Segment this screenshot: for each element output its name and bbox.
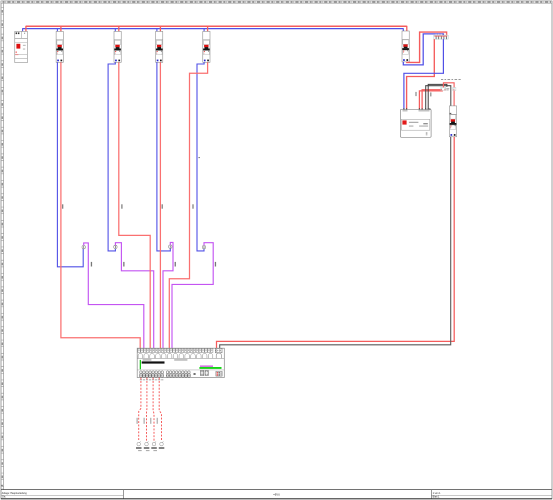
wire N channel3 blue	[157, 62, 170, 251]
wire N bus (blue)	[23, 28, 404, 30]
wire label output 3	[150, 418, 151, 424]
actuator aux block 1	[200, 371, 203, 376]
svg-text:Blatt 1: Blatt 1	[433, 496, 440, 499]
connection point node 3	[169, 245, 172, 248]
wire bus drop stubs blue	[23, 28, 404, 31]
wire label W2	[121, 204, 122, 208]
connection point node 2	[114, 245, 117, 248]
wire lamp output 2 dashed red	[146, 378, 148, 442]
actuator bottom terminals left group	[140, 371, 164, 380]
svg-text:=EVU: =EVU	[273, 493, 280, 496]
connection point node 4	[202, 245, 205, 248]
wire label W5	[198, 157, 200, 158]
wire N to PSU blue	[404, 39, 444, 109]
wire switched channel1 purple	[84, 243, 144, 348]
circuit breaker F4	[156, 31, 163, 62]
lamp E1	[136, 441, 142, 448]
wire KNX+ red B	[422, 90, 443, 110]
circuit breaker F6	[402, 31, 409, 62]
circuit breaker F7	[449, 106, 456, 137]
net label 1	[91, 262, 92, 267]
lamp E1 sub label	[138, 449, 142, 452]
wire L channel2 red	[119, 62, 150, 348]
frame left ruler numbers	[1, 7, 3, 489]
wire switched channel3 purple	[163, 242, 173, 348]
wire bus down black	[220, 137, 451, 348]
frame top ruler line	[1, 2, 552, 4]
lamp E2 sub label	[146, 449, 150, 452]
net label 2	[123, 262, 124, 267]
connector X1	[434, 34, 448, 39]
actuator top terminal strip	[138, 349, 213, 353]
wire bus down red	[217, 137, 455, 348]
wire N channel2 blue	[108, 62, 115, 251]
actuator terminal arcs row	[138, 353, 221, 358]
circuit breaker F3	[114, 31, 121, 62]
KNX terminal label row	[441, 79, 461, 80]
wire F6 out blue	[403, 34, 443, 65]
actuator bottom terminals right group	[166, 371, 190, 377]
wire switched channel4 purple	[172, 243, 213, 349]
wire N channel1 blue	[57, 62, 83, 266]
actuator aux block 2	[205, 371, 208, 376]
KNX actuator A1 body	[137, 348, 224, 377]
wire L channel1 red	[61, 62, 140, 348]
frame top ruler numbers	[1, 1, 552, 3]
lamp E2	[144, 441, 150, 448]
wire label output 1	[137, 418, 138, 424]
lamp E3 sub label	[153, 449, 157, 452]
wire lamp output 3 dashed red	[152, 378, 155, 442]
wire L to PSU red	[407, 39, 435, 109]
wire lamp output 4 dashed red	[159, 378, 161, 442]
wire KNX- black A	[426, 86, 451, 110]
wire L channel4 red	[169, 62, 207, 348]
circuit breaker F2	[56, 31, 63, 62]
wire label KNX left	[415, 92, 416, 96]
lamp E3	[151, 441, 157, 448]
net label 3	[175, 262, 176, 267]
frame left ruler line	[3, 3, 5, 489]
power supply U1	[400, 108, 431, 137]
title block	[1, 485, 552, 499]
svg-text:Ort:: Ort:	[2, 496, 6, 499]
wire L channel3 red	[159, 62, 161, 348]
title block texts	[2, 492, 441, 499]
wire label W1	[62, 204, 63, 208]
KNX bus clamp X3	[453, 88, 456, 91]
wire KNX+ red A	[419, 91, 443, 109]
actuator label texts	[140, 359, 222, 369]
KNX clamp label	[446, 88, 449, 90]
wire lamp output 1 dashed red	[139, 378, 141, 442]
connection point node 1	[82, 245, 85, 248]
KNX bus clamp X2	[441, 88, 446, 91]
actuator KNX connection block	[216, 371, 222, 376]
circuit breaker F5	[203, 31, 210, 62]
wire N channel4 blue	[197, 62, 204, 251]
actuator bus terminal block top right	[215, 348, 222, 352]
wire bus drop stubs red	[26, 26, 407, 32]
actuator programming button	[193, 373, 195, 375]
wire KNX+ jumper red	[443, 83, 454, 106]
lamp E4	[159, 441, 165, 448]
wire label W3	[162, 204, 163, 208]
net label 4	[215, 262, 216, 267]
wire label output 4	[157, 418, 158, 424]
wire label KNX right	[430, 92, 431, 96]
wire label W4	[192, 204, 193, 208]
RCD main breaker F1	[15, 31, 28, 62]
wire F6 out red	[407, 32, 447, 62]
wire L bus (red)	[26, 25, 407, 27]
breaker F7 marking	[450, 112, 452, 115]
wire label output 2	[144, 418, 145, 424]
wire KNX- black B	[428, 84, 447, 109]
wire switched channel2 purple	[115, 243, 153, 349]
